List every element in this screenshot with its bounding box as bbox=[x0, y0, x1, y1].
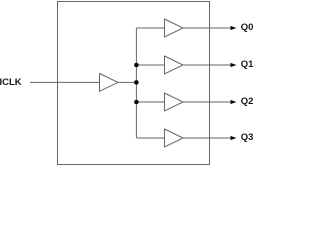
svg-text:ICLK: ICLK bbox=[0, 77, 22, 88]
svg-text:Q0: Q0 bbox=[241, 22, 254, 33]
svg-text:Q1: Q1 bbox=[241, 59, 254, 70]
svg-text:Q2: Q2 bbox=[241, 96, 254, 107]
svg-text:Q3: Q3 bbox=[241, 132, 254, 143]
